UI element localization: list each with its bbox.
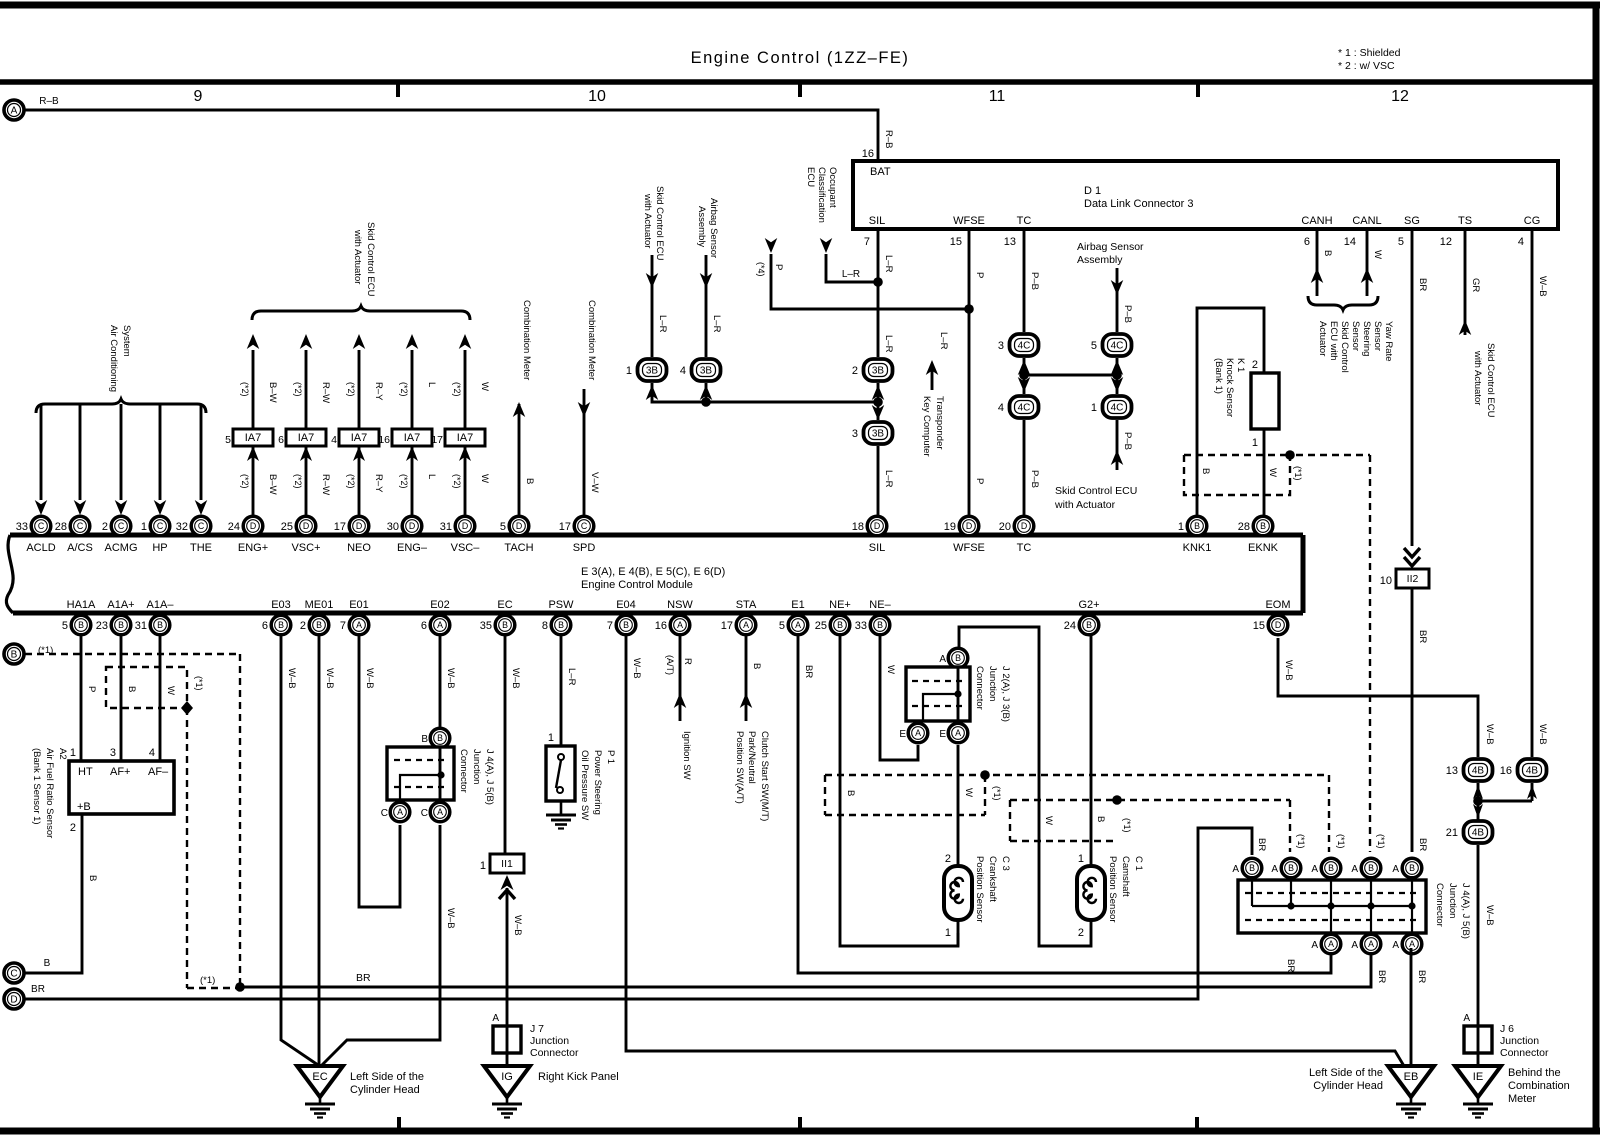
svg-text:SG: SG [1404, 215, 1420, 227]
svg-text:BR: BR [31, 984, 45, 995]
svg-text:with Actuator: with Actuator [352, 229, 363, 284]
wire A/C drop x80 [79, 404, 82, 500]
connector 1 4C [1091, 396, 1132, 418]
svg-text:J 4(A), J 5(B): J 4(A), J 5(B) [484, 749, 495, 805]
svg-text:14: 14 [1344, 236, 1356, 248]
bottom tick x1197 [1195, 1117, 1199, 1131]
ECU pin EOM circle [1253, 615, 1288, 635]
svg-text:15: 15 [950, 236, 962, 248]
ECU pin SIL circle [852, 516, 887, 536]
svg-text:5: 5 [1091, 340, 1097, 352]
J4 mid dashes [394, 759, 447, 761]
svg-text:A: A [1351, 940, 1358, 951]
svg-text:3B: 3B [700, 366, 713, 377]
svg-text:Engine Control (1ZZ–FE): Engine Control (1ZZ–FE) [691, 49, 910, 67]
svg-text:(*4): (*4) [756, 262, 766, 277]
svg-text:BAT: BAT [870, 166, 891, 178]
svg-text:25: 25 [815, 620, 827, 632]
svg-text:6: 6 [262, 620, 268, 632]
svg-text:L–R: L–R [883, 470, 894, 488]
svg-text:E: E [899, 729, 906, 740]
wire NE- [880, 636, 918, 760]
svg-text:13: 13 [1446, 765, 1458, 777]
svg-text:A: A [1232, 864, 1239, 875]
svg-text:1: 1 [1178, 521, 1184, 533]
svg-text:B: B [316, 620, 322, 630]
svg-text:IE: IE [1473, 1071, 1483, 1083]
arrow up into 3B-1 [646, 385, 659, 400]
J45 midline [1252, 905, 1412, 907]
svg-text:BR: BR [1256, 838, 1267, 851]
svg-text:A: A [1311, 940, 1318, 951]
knock sensor K1 box [1251, 373, 1279, 429]
svg-text:IA7: IA7 [351, 432, 368, 444]
svg-text:28: 28 [55, 521, 67, 533]
svg-text:D: D [356, 521, 362, 531]
wire 3B bus [652, 383, 878, 402]
wire 21 4B down [1477, 845, 1480, 1066]
svg-text:IA7: IA7 [457, 432, 474, 444]
svg-text:Connector: Connector [974, 666, 985, 710]
svg-text:II1: II1 [501, 858, 513, 870]
wire into 3B-4 [705, 255, 708, 357]
svg-text:4B: 4B [1472, 828, 1485, 839]
switch symbol P1 [558, 754, 564, 760]
bottom tick x400 [397, 1117, 401, 1131]
svg-text:A: A [1351, 864, 1358, 875]
svg-text:B–W: B–W [267, 474, 278, 495]
ECU pin VSC+ circle [281, 516, 316, 536]
svg-text:HP: HP [152, 542, 167, 554]
svg-text:(*1): (*1) [194, 676, 204, 691]
wire A1A+ drop [120, 636, 123, 761]
svg-text:B: B [1194, 521, 1200, 531]
wire HA1A drop [80, 636, 83, 761]
svg-text:4: 4 [998, 402, 1004, 414]
svg-text:CANL: CANL [1352, 215, 1381, 227]
svg-text:(*2): (*2) [240, 382, 250, 397]
svg-text:4C: 4C [1111, 403, 1124, 414]
svg-text:Transponder: Transponder [934, 396, 945, 450]
svg-text:R–B: R–B [883, 130, 894, 148]
svg-text:23: 23 [96, 620, 108, 632]
svg-text:Combination: Combination [1508, 1080, 1570, 1092]
svg-text:with Actuator: with Actuator [642, 193, 653, 248]
wire EKNK [1263, 429, 1266, 516]
svg-text:W–B: W–B [286, 668, 297, 689]
arrow into IA7 x253 [247, 446, 259, 461]
svg-text:SIL: SIL [869, 542, 886, 554]
svg-text:L–R: L–R [657, 315, 668, 333]
ruler line [0, 79, 1595, 85]
svg-text:Cylinder Head: Cylinder Head [350, 1084, 420, 1096]
svg-text:ECU with: ECU with [1328, 321, 1339, 361]
junction dot SIL bus [873, 397, 883, 407]
svg-text:Right Kick Panel: Right Kick Panel [538, 1071, 619, 1083]
svg-text:A: A [1368, 939, 1374, 949]
wire shield BR to J45 [240, 955, 1371, 987]
arrow into IA7 x465 [459, 446, 471, 461]
wire ME01 [318, 636, 321, 1066]
svg-text:R–Y: R–Y [373, 382, 384, 401]
svg-text:W: W [885, 665, 896, 674]
svg-text:W–B: W–B [631, 658, 642, 679]
svg-text:Clutch Start SW(M/T): Clutch Start SW(M/T) [759, 731, 770, 821]
wire IA7 B–W lower [252, 446, 255, 516]
svg-text:1: 1 [1252, 437, 1258, 449]
svg-text:* 2 : w/ VSC: * 2 : w/ VSC [1338, 60, 1395, 72]
svg-text:B: B [623, 620, 629, 630]
svg-text:16: 16 [655, 620, 667, 632]
connector D1 box [853, 161, 1558, 229]
bottom tick x800 [798, 1117, 802, 1131]
svg-text:P: P [974, 478, 985, 484]
svg-text:7: 7 [864, 236, 870, 248]
svg-text:IA7: IA7 [245, 432, 262, 444]
wire E02 upper [439, 636, 442, 728]
ECU pin WFSE circle [944, 516, 979, 536]
svg-text:TACH: TACH [504, 542, 533, 554]
ECU pin A1A– circle [135, 615, 170, 635]
wire E03 [281, 636, 318, 1065]
svg-text:B: B [845, 790, 856, 796]
svg-text:Skid Control ECU: Skid Control ECU [654, 186, 665, 261]
svg-text:J 6: J 6 [1500, 1023, 1514, 1035]
arrow up to skid ECU x306 [300, 334, 313, 349]
wire transponder [931, 364, 934, 390]
svg-text:4B: 4B [1472, 766, 1485, 777]
ruler tick x400 [396, 84, 400, 97]
wire CANL [1366, 229, 1369, 296]
svg-text:W–B: W–B [445, 908, 456, 929]
ECU pin E04 circle [607, 615, 636, 635]
svg-text:5: 5 [500, 521, 506, 533]
svg-text:2: 2 [852, 365, 858, 377]
svg-text:ACMG: ACMG [105, 542, 138, 554]
svg-text:HT: HT [78, 766, 93, 778]
svg-text:3B: 3B [872, 366, 885, 377]
svg-text:C: C [381, 808, 388, 819]
svg-text:TC: TC [1017, 542, 1032, 554]
svg-text:NEO: NEO [347, 542, 371, 554]
svg-text:W: W [165, 686, 176, 695]
svg-text:AF–: AF– [148, 766, 169, 778]
svg-text:W–B: W–B [1537, 276, 1548, 297]
wire D BR bus [24, 828, 1252, 999]
svg-text:EC: EC [497, 599, 512, 611]
svg-text:A1A–: A1A– [147, 599, 175, 611]
svg-text:B: B [437, 733, 443, 743]
wire occupant ECU drop [826, 254, 878, 282]
svg-text:Air Conditioning: Air Conditioning [108, 325, 119, 392]
brace yaw group [1308, 296, 1378, 310]
junction II2 box [1396, 569, 1429, 588]
svg-text:W: W [963, 788, 974, 797]
connector J45 B circle x1291 [1281, 858, 1301, 878]
wire R-B bus to BAT [24, 110, 878, 161]
arrow into circle x160 [154, 500, 167, 515]
svg-text:CG: CG [1524, 215, 1541, 227]
ECU pin TACH circle [500, 516, 529, 536]
svg-text:Left Side of the: Left Side of the [350, 1071, 424, 1083]
svg-text:Connector: Connector [458, 749, 469, 793]
svg-text:16: 16 [1500, 765, 1512, 777]
svg-text:(*2): (*2) [240, 474, 250, 489]
arrow up to skid ECU x465 [459, 334, 472, 349]
arrow chevrons II2 [1404, 548, 1420, 557]
svg-text:35: 35 [480, 620, 492, 632]
svg-text:EB: EB [1404, 1071, 1419, 1083]
ECU box right edge [1301, 535, 1306, 613]
svg-text:Actuator: Actuator [1317, 321, 1328, 356]
svg-text:D: D [10, 995, 17, 1006]
shield knock drop [1369, 455, 1371, 852]
connector J2 A1 circle [908, 723, 928, 743]
connector 16 4B [1500, 759, 1547, 781]
svg-text:Sensor: Sensor [1372, 321, 1383, 351]
svg-text:(*2): (*2) [452, 382, 462, 397]
node C [4, 963, 24, 983]
wire 4B crossbar [1478, 800, 1532, 803]
svg-text:21: 21 [1446, 827, 1458, 839]
ECU pin NE– circle [855, 615, 890, 635]
svg-text:A2: A2 [57, 748, 68, 760]
connector 13 4B [1446, 759, 1493, 781]
svg-text:Knock Sensor: Knock Sensor [1224, 358, 1235, 417]
svg-text:25: 25 [281, 521, 293, 533]
shield crank long dashed [825, 774, 1329, 776]
svg-text:C 3: C 3 [1000, 856, 1011, 871]
wire into 3B-1 [651, 255, 654, 357]
svg-text:W–B: W–B [1484, 724, 1495, 745]
svg-text:Assembly: Assembly [696, 206, 707, 247]
wire A/C drop x201 [200, 404, 203, 500]
arrow up into 3B-2 [872, 385, 885, 400]
shield cam drop [1289, 800, 1291, 852]
svg-text:Air Fuel Ratio Sensor: Air Fuel Ratio Sensor [44, 748, 55, 838]
shield A2 drop [186, 708, 188, 988]
svg-text:Combination Meter: Combination Meter [521, 300, 532, 380]
wire 4C pair right [1116, 358, 1119, 394]
ground IG [484, 1066, 530, 1118]
junction dot J2 [954, 690, 961, 697]
svg-text:P–B: P–B [1122, 432, 1133, 450]
svg-text:R–Y: R–Y [373, 474, 384, 493]
page bottom border [0, 1128, 1600, 1135]
svg-text:W–B: W–B [512, 915, 523, 936]
connector J45 B circle x1371 [1361, 858, 1381, 878]
svg-text:R–B: R–B [39, 96, 59, 107]
svg-text:BR: BR [1417, 630, 1428, 643]
svg-text:P: P [86, 686, 97, 692]
shield crank left [824, 775, 826, 815]
svg-text:SPD: SPD [573, 542, 596, 554]
svg-text:1: 1 [626, 365, 632, 377]
svg-text:L–R: L–R [883, 255, 894, 273]
svg-text:3: 3 [110, 747, 116, 759]
crankshaft sensor C3 [944, 866, 972, 920]
svg-text:D: D [303, 521, 309, 531]
svg-text:(*2): (*2) [399, 382, 409, 397]
arrow CANH up [1311, 268, 1324, 283]
svg-text:11: 11 [989, 88, 1006, 105]
arrow down into 3B-3 [872, 405, 885, 420]
ruler tick x800 [798, 84, 802, 97]
svg-text:* 1 : Shielded: * 1 : Shielded [1338, 47, 1401, 59]
svg-text:(*1): (*1) [200, 975, 215, 986]
svg-text:A: A [397, 807, 403, 817]
svg-text:R–W: R–W [320, 382, 331, 403]
svg-text:B: B [1095, 816, 1106, 822]
connector 3 4C [998, 334, 1039, 356]
svg-text:D: D [409, 521, 415, 531]
svg-text:10: 10 [1380, 575, 1392, 587]
svg-text:ENG–: ENG– [397, 542, 428, 554]
wire STA [745, 636, 748, 721]
ground EB [1388, 1066, 1434, 1118]
svg-text:HA1A: HA1A [67, 599, 96, 611]
svg-text:Airbag Sensor: Airbag Sensor [1077, 241, 1144, 253]
svg-text:L: L [426, 474, 437, 479]
ECU pin NE+ circle [815, 615, 850, 635]
svg-text:33: 33 [16, 521, 28, 533]
svg-text:19: 19 [944, 521, 956, 533]
wire E01 [359, 636, 400, 907]
wire IA7 B–W upper [252, 350, 255, 429]
svg-text:Skid Control ECU: Skid Control ECU [1055, 485, 1137, 497]
wire IA7 R–Y lower [358, 446, 361, 516]
svg-text:Assembly: Assembly [1077, 254, 1123, 266]
svg-text:A: A [1392, 864, 1399, 875]
svg-text:Steering: Steering [1361, 321, 1372, 356]
ECU pin E1 circle [779, 615, 808, 635]
wire A/C drop x121 [120, 404, 123, 500]
arrow CANL up [1361, 268, 1374, 283]
wire TS [1464, 229, 1467, 335]
wire 4C-1 down [1116, 420, 1119, 470]
junction IA7 box 6 [286, 429, 326, 446]
svg-text:6: 6 [278, 434, 284, 446]
junction dot J45 x1331 [1327, 902, 1334, 909]
arrow into circle x41 [35, 500, 48, 515]
svg-text:J 2(A), J 3(B): J 2(A), J 3(B) [1000, 666, 1011, 722]
svg-text:WFSE: WFSE [953, 542, 985, 554]
svg-text:(*2): (*2) [346, 382, 356, 397]
wire IA7 L upper [411, 350, 414, 429]
arrow up to skid ECU x359 [353, 334, 366, 349]
junction dot *4-WFSE [964, 304, 974, 314]
svg-text:B–W: B–W [267, 382, 278, 403]
svg-text:D: D [462, 521, 468, 531]
wire TACH [518, 404, 521, 516]
svg-text:NE+: NE+ [829, 599, 851, 611]
junction dot cam shield [1112, 795, 1122, 805]
svg-text:24: 24 [228, 521, 240, 533]
svg-text:(Bank 1): (Bank 1) [1213, 358, 1224, 394]
svg-text:B: B [44, 958, 51, 969]
svg-text:17: 17 [334, 521, 346, 533]
wire KNK1 loop [1197, 308, 1264, 516]
wire C1 return [959, 627, 1091, 946]
J45 internal drops [1251, 880, 1253, 906]
svg-text:L: L [426, 382, 437, 387]
wire 16 4B stub [1531, 783, 1534, 801]
shield crank right [984, 775, 986, 815]
wire airbag to 4C-5 [1116, 268, 1119, 332]
wire 13-21 link [1477, 783, 1480, 820]
svg-text:ENG+: ENG+ [238, 542, 268, 554]
connector J45 B circle x1252 [1242, 858, 1262, 878]
J2 wire through [957, 667, 960, 721]
connector 1 3B [626, 359, 667, 381]
connector 5 4C [1091, 334, 1132, 356]
svg-text:16: 16 [378, 434, 390, 446]
wire A/C drop x41 [40, 404, 43, 500]
svg-text:Yaw Rate: Yaw Rate [1383, 321, 1394, 361]
junction connector J4/J5 mid box [387, 747, 454, 800]
svg-text:5: 5 [62, 620, 68, 632]
svg-text:5: 5 [225, 434, 231, 446]
svg-text:Junction: Junction [530, 1035, 569, 1047]
connector J45 A circle x1331 [1321, 934, 1341, 954]
svg-text:ME01: ME01 [305, 599, 334, 611]
connector 4 3B [680, 359, 721, 381]
svg-text:Junction: Junction [471, 749, 482, 784]
svg-text:Power Steering: Power Steering [592, 750, 603, 815]
ECU pin A1A+ circle [96, 615, 131, 635]
wire G2+ to C1 [1090, 636, 1093, 866]
svg-text:R: R [682, 658, 693, 665]
page right border [1593, 5, 1600, 1133]
svg-text:B: B [1409, 863, 1415, 873]
svg-text:P–B: P–B [1029, 470, 1040, 488]
svg-text:1: 1 [1078, 853, 1084, 865]
svg-text:ACLD: ACLD [26, 542, 55, 554]
wire 3B-4 drop [705, 383, 708, 402]
svg-text:J 4(A), J 5(B): J 4(A), J 5(B) [1460, 883, 1471, 939]
svg-text:Connector: Connector [1434, 883, 1445, 927]
svg-text:IA7: IA7 [298, 432, 315, 444]
svg-text:P–B: P–B [1029, 272, 1040, 290]
junction dot crank shield [980, 770, 990, 780]
wire CANH [1316, 229, 1319, 296]
svg-text:B: B [1328, 863, 1334, 873]
svg-text:Camshaft: Camshaft [1120, 856, 1131, 897]
svg-text:E04: E04 [616, 599, 636, 611]
junction dot shield BR [235, 982, 245, 992]
svg-text:TC: TC [1017, 215, 1032, 227]
junction dot 4C right [1112, 370, 1122, 380]
svg-text:Skid Control ECU: Skid Control ECU [1485, 343, 1496, 418]
svg-text:1: 1 [548, 732, 554, 744]
junction connector J4/J5 box [1238, 880, 1426, 933]
shield B dashed run [25, 653, 240, 655]
svg-text:W: W [1043, 816, 1054, 825]
svg-text:4: 4 [680, 365, 686, 377]
connector J45 A circle x1371 [1361, 934, 1381, 954]
arrow up into 4C-3 [1018, 360, 1031, 375]
svg-text:2: 2 [1252, 359, 1258, 371]
wire EC [504, 636, 507, 854]
svg-text:Connector: Connector [530, 1047, 579, 1059]
wire A/C drop x160 [159, 404, 162, 500]
connector 21 4B [1446, 821, 1493, 843]
arrow into circle x121 [115, 500, 128, 515]
wire 3B-2 to 3B-3 [877, 383, 880, 420]
svg-text:1: 1 [945, 927, 951, 939]
wire 4C crossbar [1024, 374, 1117, 377]
svg-text:7: 7 [607, 620, 613, 632]
